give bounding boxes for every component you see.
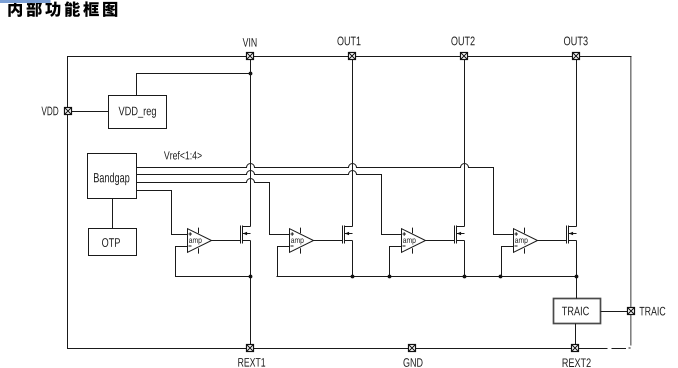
block OTP [89, 229, 137, 256]
wire OUT3 MOSFET source down to bottom node [576, 241, 578, 277]
wire bus Vref line 2 (to amp3) [137, 171, 402, 235]
junction dot OUT1 source node [351, 275, 355, 279]
pin REXT2 [563, 344, 591, 367]
label Vref<1:4> [164, 151, 202, 160]
wire OUT2 rail (pin down to MOSFET drain) [464, 60, 466, 227]
wire OUT1 rail (pin down to MOSFET drain) [352, 60, 354, 227]
wire feedback from source node to amp1 inverting input [176, 247, 251, 277]
wire OUT1 MOSFET source down to bottom node [352, 241, 354, 277]
wire OUT3 rail (pin down to MOSFET drain) [576, 60, 578, 227]
wire amp4 output to gate of Q4 [538, 240, 567, 242]
pin VIN [243, 38, 257, 60]
pin VDD [41, 107, 71, 116]
wire bus Vref line 1 (to amp4) [137, 164, 514, 235]
wire feedback from source node to amp2 inverting input [278, 247, 290, 277]
junction dot OUT2 source node [463, 275, 467, 279]
op-amp U1 (amp) [188, 228, 212, 254]
transistor Q4 (NMOS on OUT3 rail) [567, 226, 577, 244]
transistor Q2 (NMOS on OUT1 rail) [343, 226, 353, 244]
block VDD_reg [109, 96, 167, 129]
block Bandgap [88, 154, 137, 199]
wire feedback from source node to amp3 inverting input [390, 247, 402, 277]
transistor Q3 (NMOS on OUT2 rail) [455, 226, 465, 244]
wire amp3 output to gate of Q3 [426, 240, 455, 242]
pin OUT1 [337, 37, 360, 60]
junction dot amp4 feedback tap [499, 275, 503, 279]
IC boundary dashed bottom-right segment [612, 347, 631, 350]
pin TRAIC [627, 307, 665, 316]
IC boundary (top, left, bottom solid) [68, 57, 632, 349]
pin REXT1 [238, 344, 265, 366]
title highlight bar [0, 0, 51, 3]
wire OUT3 source node down to TRAIC block [576, 277, 578, 299]
wire TRAIC block to TRAIC pin [601, 311, 628, 313]
IC boundary right edge (gray) [630, 57, 632, 346]
junction dot amp3 feedback tap [388, 275, 392, 279]
wire OUT2 MOSFET source down to bottom node [464, 241, 466, 277]
wire VIN rail (pin down to MOSFET drain) [250, 60, 252, 227]
wire bus Vref line 3 (to amp2) [137, 179, 290, 235]
wire VIN-cell source node to REXT1 pin [250, 277, 252, 345]
wire amp1 output to gate of Q1 [212, 240, 241, 242]
op-amp U2 (amp) [290, 228, 314, 254]
wire VDD_reg top to VIN rail [137, 74, 251, 96]
block TRAIC [554, 299, 601, 324]
transistor Q1 (NMOS on VIN rail) [241, 226, 251, 244]
title 内部功能框图 [8, 1, 117, 17]
wire VDD pin to VDD_reg [72, 111, 109, 113]
junction dot on VIN rail at VDD_reg wire [249, 72, 253, 76]
wire amp2 output to gate of Q2 [314, 240, 343, 242]
junction dot VIN source node [249, 275, 253, 279]
pin GND [403, 344, 422, 367]
op-amp U3 (amp) [402, 228, 426, 254]
pin OUT3 [564, 37, 588, 60]
wire feedback from source node to amp4 inverting input [502, 247, 514, 277]
junction dot OUT3 source node [575, 275, 579, 279]
pin OUT2 [451, 37, 474, 60]
wire bus Vref line 4 (to amp1) [137, 191, 188, 235]
wire common source rail (cells 2-4) [277, 276, 577, 278]
wire TRAIC block to REXT2 pin [575, 324, 577, 345]
wire Bandgap to OTP [112, 199, 114, 229]
op-amp U4 (amp) [514, 228, 538, 254]
wire VIN MOSFET source down to bottom node [250, 241, 252, 277]
